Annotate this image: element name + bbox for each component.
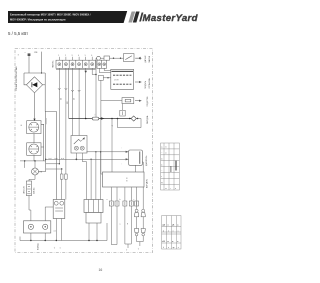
T2 cell glyphs: [161, 225, 179, 250]
svg-text:a: a: [107, 199, 108, 201]
band wire QF pin b: [61, 169, 63, 174]
dashed border box: [15, 49, 153, 253]
svg-text:АКБ 12В: АКБ 12В: [22, 186, 25, 194]
svg-text:1: 1: [58, 55, 59, 57]
wire M1 right down: [141, 162, 144, 209]
U1 arrowhead: [139, 81, 142, 83]
lamp HL1 wire top: [34, 161, 36, 168]
SA1 contact 1 x: [75, 147, 77, 149]
wire TB1-2 down: [65, 68, 67, 174]
inline pad P2: [65, 174, 68, 179]
svg-text:ж1: ж1: [161, 225, 165, 227]
wire stub up left: [28, 56, 30, 73]
svg-text:12В: 12В: [34, 52, 38, 54]
XP2 dividers: [89, 200, 99, 213]
charge bus arrow: [101, 117, 105, 120]
svg-text:з: з: [177, 241, 178, 243]
diode block D2: [104, 56, 110, 60]
TB1 pin labels: [58, 55, 92, 57]
junction switch drop: [76, 159, 77, 160]
junction dot feed2 x91: [90, 159, 91, 160]
winding G1 circle: [29, 122, 39, 132]
rectifier diode triangle: [32, 82, 37, 87]
logo slash: [139, 13, 143, 22]
XS1 pin 2: [43, 224, 48, 229]
svg-text:б: б: [161, 158, 162, 160]
wire FA to D2: [100, 57, 104, 59]
feed chevron 3: [61, 158, 64, 159]
SA1 contact 2: [80, 146, 84, 150]
block K1 small: [120, 110, 125, 116]
svg-text:4: 4: [78, 55, 79, 57]
XS1 pin 1: [28, 224, 33, 229]
wire TB1-6 down: [92, 68, 96, 74]
svg-text:↑: ↑: [121, 163, 122, 166]
spark plug B: [141, 229, 145, 233]
plug cap B body: [141, 212, 145, 216]
plug cap B circle: [142, 209, 145, 212]
svg-text:б1: б1: [162, 240, 165, 243]
svg-text:j: j: [94, 114, 96, 116]
TB2 screw 1: [98, 63, 101, 66]
svg-text:б: б: [163, 247, 164, 249]
U2 pin wire 1: [110, 187, 112, 201]
G1 top arrow: [33, 119, 35, 121]
pad XP3-1: [109, 201, 113, 206]
svg-text:MGV 6500ЕР / Инструкция по экс: MGV 6500ЕР / Инструкция по эксплуатации: [10, 17, 66, 21]
TB1 pin tick 4: [78, 57, 80, 60]
SA1 contact 2 x: [81, 147, 83, 149]
bus feed vertical: [68, 68, 70, 118]
TB1 divider 5: [88, 60, 90, 68]
junction dot stub right: [41, 72, 42, 73]
T1 dark mark: [175, 161, 177, 171]
connector chevron 1: [58, 88, 61, 90]
svg-text:Бензиновый генератор MGV 1000Т: Бензиновый генератор MGV 1000Т / MGV 350…: [10, 13, 91, 17]
HL1 cross: [33, 169, 38, 174]
winding G2 circle: [29, 144, 39, 154]
TB1 screw 1: [58, 63, 61, 66]
svg-text:з: з: [168, 231, 169, 233]
legend table T2: [162, 216, 181, 249]
svg-text:МАСЛА: МАСЛА: [148, 55, 151, 62]
G2 bottom wire: [33, 155, 35, 161]
plug cap A body: [134, 212, 138, 216]
junction dot bus 2: [111, 118, 113, 120]
svg-text:▪: ▪: [170, 188, 171, 190]
wire pad2 down: [111, 206, 117, 245]
rectifier diode bar: [31, 82, 33, 87]
junction dot band 2: [34, 160, 35, 161]
arrow to oil sensor: [135, 57, 140, 60]
TB1 screw 4: [78, 63, 81, 66]
svg-text:5 / 5,5 кВт: 5 / 5,5 кВт: [8, 31, 28, 36]
lamp HL1: [32, 168, 39, 175]
feeder XP2 pin2: [90, 159, 92, 199]
wire stub up right: [41, 52, 43, 73]
rectifier D1 diamond: [26, 77, 42, 93]
AVR box U2: [103, 172, 145, 187]
svg-text:в: в: [161, 164, 162, 166]
svg-text:5: 5: [85, 55, 86, 57]
svg-text:V: V: [112, 125, 114, 127]
winding G1 box: [27, 121, 41, 134]
XP2 lower part: [86, 213, 101, 224]
wire M1 to AVR: [134, 165, 136, 172]
TB1 screw 6: [91, 63, 94, 66]
svg-text:з: з: [167, 225, 168, 227]
K1 inner tick: [122, 111, 124, 115]
svg-text:−: −: [161, 153, 162, 155]
TB1 pin tick 3: [72, 57, 74, 60]
svg-text:a: a: [120, 224, 121, 226]
terminal strip TB1 body: [56, 60, 96, 68]
TB1 pin tick 5: [85, 57, 87, 60]
wire rectifier bottom drop: [34, 93, 36, 121]
QF1 wires down: [56, 219, 61, 241]
junction dot bus 3: [117, 118, 119, 120]
TB1 pin tick 6: [91, 57, 93, 60]
logo stripe black: [133, 12, 140, 23]
wire G1-G2: [33, 134, 35, 143]
connector chevron 2: [65, 88, 68, 90]
plug wires join: [137, 236, 144, 246]
band wire lower 2: [46, 168, 62, 170]
wire bus to AVR: [111, 119, 113, 173]
TB2 screw 2: [103, 63, 106, 66]
SA1 arrowhead: [83, 137, 85, 140]
switch S1 box: [124, 54, 135, 62]
XS1 pin 2 dot: [45, 226, 46, 227]
svg-text:↑: ↑: [121, 147, 122, 150]
TB1 screw 3: [71, 63, 74, 66]
wire TB2-1 right: [99, 68, 111, 72]
svg-text:6: 6: [91, 55, 92, 57]
SA1 key symbol: [74, 139, 81, 144]
ground tick: [127, 244, 129, 248]
svg-text:ВЫХОД: ВЫХОД: [38, 243, 40, 250]
TB1 base line: [56, 68, 96, 70]
connector chevron 3: [71, 90, 74, 92]
G2 brush marks: [29, 146, 39, 152]
U1 arrow right: [135, 81, 141, 83]
svg-text:б: б: [165, 147, 166, 149]
wire TB1-5 down: [85, 68, 87, 118]
M1 inner line: [139, 152, 141, 164]
engine stop module U1 box: [111, 69, 134, 89]
R1 arrowhead: [139, 100, 142, 102]
U2 pin wire 2: [116, 187, 118, 201]
U1 top band: [112, 70, 134, 72]
junction dot feed2: [45, 159, 46, 160]
junction dot bus 1: [85, 118, 87, 120]
svg-text:16: 16: [99, 268, 103, 272]
svg-text:МОДУЛЬ: МОДУЛЬ: [145, 80, 147, 88]
svg-text:⏚: ⏚: [126, 248, 128, 252]
winding G2 box: [27, 143, 41, 156]
svg-text:ДВИГАТЕЛЬ: ДВИГАТЕЛЬ: [145, 155, 148, 166]
HL1 right wire: [39, 171, 46, 173]
pad XP3-3: [123, 201, 127, 206]
svg-text:с: с: [177, 225, 179, 227]
connector XP2 block: [84, 200, 103, 213]
svg-text:ОСТАНОВА: ОСТАНОВА: [148, 78, 151, 89]
feeder XP2 pin4: [100, 152, 102, 200]
charge loop wire: [118, 119, 142, 128]
breaker QF1 connector: [53, 200, 65, 219]
svg-text:ч: ч: [168, 247, 169, 249]
wire TB1-1 down: [58, 68, 60, 164]
wire rectifier top: [24, 72, 45, 74]
GB1 plates: [27, 184, 31, 194]
wire GB1 down: [29, 196, 31, 221]
diamond dot right: [137, 118, 138, 119]
plug cap A circle: [135, 209, 138, 212]
fuse block FA: [97, 56, 101, 60]
TB1 divider 2: [68, 60, 70, 68]
TB1 screw 5: [84, 63, 87, 66]
engine feed wire 1: [87, 151, 128, 153]
TB1 pin tick 1: [58, 57, 60, 60]
junction dot: [120, 58, 121, 59]
svg-text:2: 2: [65, 55, 66, 57]
svg-text:с: с: [178, 231, 179, 233]
svg-text:к: к: [173, 231, 174, 233]
socket XS1 box: [24, 221, 51, 233]
switch S1 lever: [125, 56, 132, 60]
band drop from switch 2: [82, 153, 86, 200]
spark plug A: [134, 229, 138, 233]
QF1 body lines: [55, 208, 63, 211]
svg-text:ПОДОГРЕВ: ПОДОГРЕВ: [147, 96, 149, 107]
resistor R1 body: [125, 99, 131, 102]
wire vertical x100.9: [101, 80, 103, 174]
U1 left stub component: [99, 75, 104, 80]
wire XS1 down 2: [44, 233, 46, 241]
QF1 pin a: [54, 201, 58, 205]
svg-text:E: E: [127, 224, 129, 226]
wire rectifier right vertex: [43, 84, 46, 86]
wire band left junctions: [20, 160, 46, 162]
U2 pin wire 3: [124, 187, 126, 201]
svg-text:MasterYard: MasterYard: [143, 13, 199, 24]
wire band drop: [24, 161, 26, 168]
junction dot feed1 x95.9: [95, 151, 96, 152]
wire XS1 pin2 up: [45, 207, 53, 221]
wire TB2-2 right: [104, 68, 111, 70]
svg-text:ДАТЧИК: ДАТЧИК: [144, 55, 147, 63]
TB2 divider: [101, 60, 103, 68]
svg-text:и: и: [165, 188, 166, 190]
terminal block TB2 body: [97, 60, 107, 68]
TB1 divider 4: [81, 60, 83, 68]
svg-text:в: в: [165, 153, 166, 155]
bus junction dots: [30, 240, 98, 241]
pad XP3-4: [129, 201, 133, 206]
svg-text:к1: к1: [172, 225, 175, 227]
svg-text:ПАНЕЛЬ: ПАНЕЛЬ: [52, 60, 55, 68]
svg-text:3К: 3К: [74, 98, 76, 100]
junction dot stub left: [28, 53, 31, 56]
wire TB1-3 down: [72, 68, 74, 135]
bottom bus right turn: [106, 223, 108, 241]
TB1 divider 3: [75, 60, 77, 68]
wire stub to U1: [103, 77, 111, 79]
ignition switch SA1 box: [71, 136, 87, 154]
wire G1 right to bus: [41, 111, 46, 171]
engine feed arrowhead 1: [126, 151, 129, 153]
legend table T1: [161, 143, 180, 190]
svg-text:1: 1: [60, 248, 61, 250]
wire D2 to S1: [110, 57, 124, 59]
U1 contact row 2: [113, 83, 131, 85]
wire QF pin b lower: [61, 179, 63, 199]
svg-text:ЗАРЯДКА: ЗАРЯДКА: [146, 115, 149, 124]
fuse F1 oval on bus: [92, 117, 99, 120]
pad XP3-5: [135, 201, 139, 206]
G1 brush marks: [29, 124, 39, 130]
svg-text:д: д: [161, 182, 163, 184]
connector chevron 4: [78, 90, 81, 92]
band wire lower 1: [46, 163, 60, 165]
feed chevron 1: [49, 158, 52, 159]
engine box M1: [129, 150, 143, 165]
wire to R1: [101, 100, 122, 102]
svg-text:ж: ж: [163, 231, 165, 233]
wire TB1-4 down: [78, 68, 80, 135]
svg-text:3: 3: [72, 55, 73, 57]
svg-text:1Б: 1Б: [61, 97, 63, 100]
junction dot feed1 x100.6: [100, 151, 101, 152]
svg-text:г: г: [161, 176, 162, 178]
TB1 screw 2: [64, 63, 67, 66]
svg-text:c: c: [134, 199, 135, 201]
svg-text:b: b: [120, 199, 121, 201]
wire HL1 to battery: [29, 175, 35, 181]
SA1 arrow: [81, 138, 85, 141]
battery GB1 box: [26, 181, 31, 196]
XS1 pin 1 dot: [30, 226, 31, 227]
QF1 pin b: [60, 201, 64, 205]
pad XP3-2: [115, 201, 119, 206]
engine feed arrowhead 2: [126, 158, 129, 160]
arrowhead: [139, 57, 142, 59]
band drop from switch: [75, 153, 77, 159]
diamond dots: [129, 118, 130, 119]
fuse chain: wire from left: [95, 57, 98, 59]
SA1 contact 1: [74, 146, 78, 150]
engine feed wire 2: [46, 158, 128, 160]
svg-text:к: к: [175, 188, 176, 190]
charge connector diamond: [131, 116, 136, 121]
feeder XP2 pin3: [95, 152, 97, 200]
wire vertical x96: [95, 58, 97, 118]
plug wires mid: [137, 217, 144, 229]
svg-text:СТОП: СТОП: [114, 80, 119, 82]
header bar: [8, 11, 127, 23]
charge bus dark line: [69, 118, 131, 120]
spark wire A: [136, 187, 138, 209]
logo stripe gray: [128, 12, 135, 23]
junction dot x96: [95, 74, 96, 75]
pad pin ticks: [111, 202, 136, 205]
junction dot stub bus: [100, 118, 101, 119]
svg-text:З: З: [18, 55, 20, 57]
wire rectifier left drop: [24, 73, 26, 85]
svg-text:АВР (AVR): АВР (AVR): [146, 179, 149, 188]
svg-text:≈: ≈: [25, 52, 27, 54]
svg-text:⏚: ⏚: [54, 246, 56, 250]
svg-text:кр: кр: [173, 247, 175, 249]
T1 cell glyphs: [161, 147, 176, 190]
TB1 divider 1: [62, 60, 64, 68]
XP2 wires down: [89, 223, 97, 241]
junction dot: [113, 58, 114, 59]
feed chevron 2: [55, 158, 58, 159]
wire TB1-2 lower: [65, 179, 67, 199]
svg-text:СХЕМА ЭЛЕКТРИЧЕСКАЯ: СХЕМА ЭЛЕКТРИЧЕСКАЯ: [15, 66, 18, 91]
svg-text:a: a: [161, 147, 163, 149]
TB1-5 arrow: [85, 71, 87, 73]
junction dot band 1: [24, 160, 25, 161]
inline pad P1: [60, 174, 63, 179]
wire pad3 down U loop: [125, 206, 131, 244]
wire XS1 down 1: [30, 233, 32, 241]
resistor R1 box: [122, 98, 134, 104]
junction dot 59: [59, 163, 60, 164]
wire R1 to K1: [122, 104, 124, 111]
spark plug A tip: [135, 233, 138, 236]
svg-text:−: −: [161, 170, 162, 172]
wire rectifier right drop: [45, 73, 56, 200]
bottom bus wire: [20, 240, 107, 242]
wire pad1 down: [110, 206, 112, 245]
spark plug B tip: [142, 233, 145, 236]
bottom bus left tick: [19, 237, 21, 241]
svg-text:⏚: ⏚: [138, 247, 140, 251]
junction dot U1: [107, 77, 108, 78]
svg-text:G: G: [21, 125, 23, 127]
junction G right: [45, 118, 47, 124]
svg-text:12В 4Ач: 12В 4Ач: [33, 187, 36, 194]
TB1 pin tick 2: [65, 57, 67, 60]
R1 arrow right: [135, 100, 141, 102]
U1 contact row 1: [113, 74, 131, 76]
junction dot 61: [61, 168, 62, 169]
U2 pin wire 4: [130, 187, 132, 201]
